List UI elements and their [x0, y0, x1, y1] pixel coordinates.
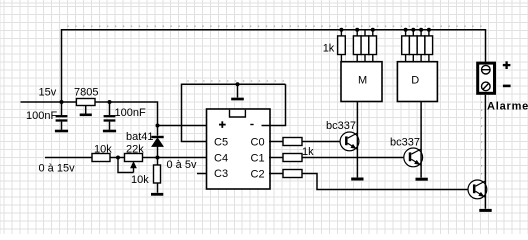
wire C2 row: [269, 174, 468, 190]
transistor Q1 bc337 circle: [340, 132, 359, 151]
svg-text:100nF: 100nF: [115, 107, 146, 119]
label 22k: [126, 143, 144, 155]
display M box: [341, 62, 382, 102]
label C4: [214, 153, 228, 165]
wire C1 row: [269, 157, 403, 159]
resistor RM4: [369, 30, 377, 62]
display D box: [397, 62, 437, 102]
op-amp U1 ADC box: [207, 109, 271, 189]
svg-text:C1: C1: [251, 153, 265, 165]
label Alarme: [487, 101, 528, 113]
resistor RM1: [338, 30, 346, 62]
wire minus pin: [262, 84, 286, 125]
svg-text:C5: C5: [214, 137, 228, 149]
node rail dot M4: [371, 28, 375, 32]
svg-text:bc337: bc337: [326, 120, 356, 132]
svg-text:C4: C4: [214, 153, 228, 165]
wire C0 row: [269, 141, 340, 143]
resistor RD3: [417, 30, 425, 62]
transistor Q2 symbol: [410, 149, 421, 165]
resistor RM3: [361, 30, 369, 62]
node rail dot D2: [411, 28, 415, 32]
svg-text:100nF: 100nF: [26, 110, 57, 122]
label 100nF left: [26, 110, 57, 122]
resistor R1 10k: [92, 154, 110, 162]
svg-text:7805: 7805: [74, 87, 98, 99]
svg-text:bc337: bc337: [390, 137, 420, 149]
IC notch: [230, 110, 246, 117]
alarm terminal block: [478, 63, 495, 93]
node 15v junction at C2: [108, 100, 112, 104]
label 1k top: [323, 42, 335, 54]
svg-text:D: D: [411, 75, 419, 87]
potentiometer wiper arm: [118, 158, 136, 173]
wire 5v to plus pin: [158, 125, 214, 127]
label minus pin: [250, 124, 253, 126]
regulator 7805: [76, 99, 95, 106]
svg-text:C0: C0: [251, 137, 265, 149]
node rail dot D3: [419, 28, 423, 32]
ground below Q2: [416, 178, 428, 181]
label C3: [214, 168, 228, 180]
capacitor C2 100nF: [104, 102, 116, 130]
ground below R2: [151, 193, 163, 196]
wire M to Q1 collector-emitter: [356, 102, 358, 178]
svg-text:1k: 1k: [302, 146, 314, 158]
svg-text:0 à 5v: 0 à 5v: [167, 159, 197, 171]
resistor R4 on C1: [283, 154, 302, 162]
wire D to Q2 collector-emitter: [420, 102, 422, 178]
resistor R5 on C2: [283, 170, 302, 178]
label bc337 Q2: [390, 137, 420, 149]
label 1k right: [302, 146, 314, 158]
label 100nF right: [115, 107, 146, 119]
svg-text:C3: C3: [214, 168, 228, 180]
alarm terminal screw bottom: [482, 82, 491, 91]
wire alarm to Q3 collector-emitter: [484, 95, 486, 209]
wire C3 stub: [197, 173, 207, 175]
label 10k pot: [131, 174, 149, 186]
node 5v junction: [156, 124, 160, 128]
svg-text:Alarme: Alarme: [487, 101, 528, 113]
transistor Q1 symbol: [346, 133, 357, 149]
label bc337 Q1: [326, 120, 356, 132]
resistor RD2: [409, 30, 417, 62]
potentiometer P1 22k body: [125, 154, 143, 162]
resistor RD4: [425, 30, 433, 62]
resistor RD1: [402, 30, 410, 62]
svg-text:15v: 15v: [39, 87, 57, 99]
ground IC minus rail: [231, 84, 244, 99]
label alarm plus: [503, 61, 511, 69]
label 10k R1: [94, 143, 112, 155]
label C1: [251, 153, 265, 165]
svg-text:M: M: [358, 75, 367, 87]
diode D1 bat41: [151, 126, 163, 158]
label 15v: [39, 87, 57, 99]
node 15v junction at C1: [60, 100, 64, 104]
ground below Q3: [479, 209, 491, 212]
svg-text:C2: C2: [251, 169, 265, 181]
node diode bottom junction: [156, 156, 160, 160]
resistor RM2: [353, 30, 361, 62]
label alarm minus: [503, 85, 511, 88]
resistor R3 1k on C0: [283, 138, 302, 146]
svg-text:22k: 22k: [126, 143, 144, 155]
wire 0-15v input row: [45, 157, 207, 159]
svg-text:10k: 10k: [94, 143, 112, 155]
svg-text:bat41: bat41: [126, 131, 154, 143]
wire 15v input: [21, 102, 158, 126]
node rail dot M2: [355, 28, 359, 32]
node rail dot M1: [339, 28, 343, 32]
ground below C1: [55, 130, 68, 133]
ground below 7805: [80, 106, 92, 115]
label D: [411, 75, 419, 87]
label C2: [251, 169, 265, 181]
capacitor C1 100nF: [56, 102, 68, 130]
svg-text:0 à 15v: 0 à 15v: [39, 163, 76, 175]
resistor R2 10k vertical: [154, 158, 161, 193]
node rail dot D4: [427, 28, 431, 32]
label C0: [251, 137, 265, 149]
label plus pin: [219, 121, 226, 128]
label bat41: [126, 131, 154, 143]
svg-text:10k: 10k: [131, 174, 149, 186]
label 0 a 15v: [39, 163, 76, 175]
label M: [358, 75, 367, 87]
node IC ground junction: [236, 82, 240, 86]
label C5: [214, 137, 228, 149]
transistor Q2 bc337 circle: [404, 148, 423, 167]
transistor Q3 bc337 circle: [468, 180, 487, 199]
node rail dot D1: [404, 28, 408, 32]
label 7805: [74, 87, 98, 99]
svg-text:1k: 1k: [323, 42, 335, 54]
alarm terminal screw top: [482, 65, 491, 74]
label 0 a 5v: [167, 159, 197, 171]
wire top supply rail: [62, 30, 486, 102]
transistor Q3 symbol: [474, 181, 485, 197]
ground below C2: [103, 130, 116, 133]
wire C5 riser: [182, 84, 286, 141]
node wiper junction: [116, 156, 120, 160]
ground below Q1: [351, 178, 363, 181]
